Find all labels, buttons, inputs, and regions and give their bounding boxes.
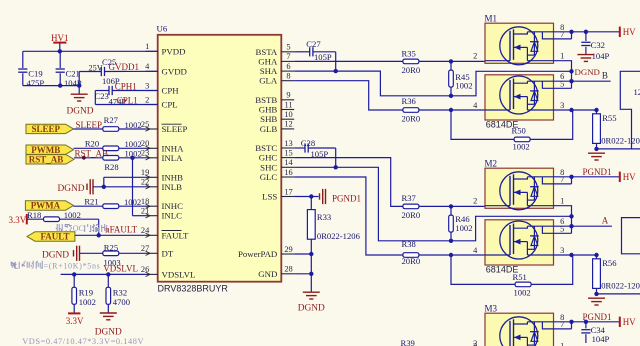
svg-text:16: 16	[284, 168, 292, 177]
pin 29 PowerPAD (U6 right)	[238, 245, 294, 259]
junction DGND tap	[77, 83, 81, 87]
svg-text:GHC: GHC	[259, 153, 278, 163]
junction nFAULT pullup	[97, 233, 101, 237]
svg-text:12: 12	[634, 87, 640, 97]
wire PowerPAD/GND column	[310, 254, 312, 292]
svg-text:22: 22	[141, 178, 149, 187]
pin 3 CPH (U6 left)	[145, 81, 179, 95]
svg-text:20R0: 20R0	[402, 65, 421, 75]
svg-text:3.3V: 3.3V	[66, 316, 84, 326]
svg-text:R32: R32	[113, 287, 127, 297]
wire CPL to pin 2	[95, 104, 157, 106]
svg-text:R20: R20	[85, 138, 99, 148]
power ground PGND1 (below R56)	[583, 298, 612, 322]
pin 8 GLA (U6 right)	[259, 72, 294, 86]
svg-text:FAULT: FAULT	[162, 230, 190, 240]
svg-text:6: 6	[286, 62, 290, 71]
junction R51 top	[449, 253, 453, 257]
pin 28 GND (U6 right)	[258, 265, 294, 279]
svg-text:10: 10	[284, 110, 292, 119]
junction R19 tap	[72, 272, 76, 276]
ground DGND (DT bar symbol)	[42, 246, 80, 261]
capacitor C25 106P 25V on GVDD	[79, 57, 158, 86]
transistor M2 (dual MOSFET 6814DE half-bridge)	[473, 159, 571, 275]
pin 13 BSTC (U6 right)	[255, 139, 294, 153]
svg-text:R35: R35	[402, 48, 416, 58]
svg-text:OC: OC	[73, 224, 84, 233]
junction M2 drain node	[569, 175, 573, 179]
svg-text:VDS=0.47/10.47*3.3V=0.148V: VDS=0.47/10.47*3.3V=0.148V	[22, 337, 144, 346]
resistor R21 1002	[74, 196, 146, 208]
junction LSS	[309, 194, 313, 198]
svg-text:nFAULT: nFAULT	[105, 224, 138, 234]
resistor R28 1002	[74, 149, 146, 172]
svg-text:GHA: GHA	[258, 56, 278, 66]
pin 27 DT (U6 left)	[141, 244, 174, 258]
svg-text:1002: 1002	[455, 81, 472, 91]
svg-text:R25: R25	[104, 242, 118, 252]
svg-text:18: 18	[141, 197, 149, 206]
svg-text:GLC: GLC	[260, 172, 278, 182]
svg-text:0R022-120: 0R022-120	[601, 136, 640, 146]
svg-text:HV: HV	[623, 27, 636, 37]
svg-text:5: 5	[560, 79, 564, 88]
pin 21 INLC (U6 left)	[141, 207, 182, 221]
svg-text:R33: R33	[317, 212, 331, 222]
port SLEEP	[26, 124, 74, 134]
wire SHA run	[294, 71, 571, 96]
svg-text:=(R+10K)*5ns: =(R+10K)*5ns	[44, 261, 101, 270]
resistor R35 20R0	[402, 48, 486, 74]
svg-text:2: 2	[145, 95, 149, 104]
svg-text:HV1: HV1	[51, 33, 69, 43]
junction HV bus / HV1	[58, 49, 62, 53]
svg-text:DGND: DGND	[42, 250, 69, 260]
svg-text:7: 7	[560, 30, 564, 39]
pin 16 GLC (U6 right)	[260, 168, 295, 182]
svg-text:HV: HV	[623, 172, 636, 182]
junction R55 tap	[594, 108, 598, 112]
svg-text:3: 3	[560, 101, 564, 110]
junction INHB/INLB tie	[102, 185, 106, 189]
svg-text:R18: R18	[27, 210, 41, 220]
wire GND pin to column	[294, 273, 311, 275]
svg-text:SHC: SHC	[260, 162, 277, 172]
svg-text:23: 23	[141, 149, 149, 158]
pin 5 BSTA (U6 right)	[256, 43, 295, 57]
pin 24 FAULT (U6 left)	[141, 226, 189, 240]
transistor M1 (dual MOSFET 6814DE half-bridge)	[473, 14, 571, 130]
pin 10 SHB (U6 right)	[260, 110, 294, 124]
svg-text:INHA: INHA	[162, 143, 185, 153]
svg-text:7: 7	[560, 175, 564, 184]
svg-text:7: 7	[560, 320, 564, 329]
svg-text:DRV8328BRUYR: DRV8328BRUYR	[158, 284, 229, 294]
svg-text:RST_AB: RST_AB	[29, 155, 64, 165]
wire PGND rail (exits right)	[597, 148, 640, 150]
resistor R18 1002	[27, 210, 99, 222]
svg-text:1: 1	[560, 52, 564, 61]
svg-text:DGND: DGND	[298, 304, 325, 314]
svg-text:DGND: DGND	[58, 184, 85, 194]
svg-text:INLA: INLA	[162, 153, 184, 163]
svg-text:SLEEP: SLEEP	[162, 124, 188, 134]
svg-text:SHA: SHA	[260, 66, 278, 76]
capacitor C19 475P	[18, 51, 44, 88]
capacitor C23 474P between CPH and CPL	[95, 86, 158, 106]
svg-text:PGND1: PGND1	[583, 167, 612, 177]
svg-text:24: 24	[141, 226, 150, 235]
wire GLC run	[294, 177, 403, 255]
capacitor C28 105P (BSTC bootstrap)	[294, 138, 336, 167]
svg-text:DT: DT	[162, 248, 174, 258]
svg-text:2: 2	[473, 339, 477, 346]
svg-text:M2: M2	[485, 159, 498, 169]
svg-text:CPH: CPH	[162, 86, 180, 96]
wire GHA to R35	[294, 60, 403, 62]
svg-text:25: 25	[141, 120, 149, 129]
resistor R25 1003 on DT	[80, 242, 146, 267]
svg-text:3: 3	[145, 81, 149, 90]
svg-text:20R0: 20R0	[402, 210, 421, 220]
transistor M3 (dual MOSFET 6814DE half-bridge)	[473, 304, 571, 346]
svg-text:INHB: INHB	[162, 172, 184, 182]
power port HV (M1)	[620, 27, 636, 37]
svg-text:R27: R27	[104, 115, 119, 125]
resistor R55 0R022-1206 (shunt)	[593, 110, 640, 149]
svg-text:CPL1: CPL1	[117, 96, 138, 106]
svg-text:B: B	[602, 71, 608, 81]
svg-text:4700: 4700	[113, 297, 130, 307]
resistor R50 1002 (gate-source low)	[451, 110, 573, 151]
resistor R38 20R0	[402, 239, 486, 266]
pin 26 VDSLVL (U6 left)	[141, 265, 195, 279]
wire VDSLVL	[61, 273, 146, 275]
resistor R46 1002 (gate-source)	[449, 206, 473, 240]
svg-text:CPL: CPL	[162, 100, 178, 110]
svg-text:28: 28	[284, 265, 292, 274]
svg-text:CPH1: CPH1	[115, 82, 137, 92]
power ground PGND1 (LSS bar symbol)	[294, 189, 361, 204]
pin 18 INHC (U6 left)	[141, 197, 183, 211]
junction M3 drain node	[569, 320, 573, 324]
svg-text:C28: C28	[301, 138, 315, 148]
junction C28 to SHC	[334, 165, 338, 169]
wire crop jog lower (right edge)	[622, 218, 640, 254]
power port 3.3V (R18 pullup)	[9, 214, 27, 225]
net label A (phase A stub)	[572, 225, 612, 227]
svg-text:R37: R37	[402, 193, 417, 203]
junction PowerPAD	[309, 252, 313, 256]
ground DGND (U6 GND)	[298, 292, 325, 313]
power port HV (M3)	[620, 317, 636, 327]
svg-text:1002: 1002	[64, 210, 81, 220]
svg-text:2: 2	[473, 52, 477, 61]
svg-text:PowerPAD: PowerPAD	[238, 249, 277, 259]
junction M1 low drain	[569, 79, 573, 83]
svg-text:29: 29	[284, 245, 292, 254]
svg-text:M1: M1	[485, 14, 498, 24]
svg-text:BSTC: BSTC	[255, 143, 277, 153]
svg-text:GLB: GLB	[260, 124, 278, 134]
svg-text:R19: R19	[79, 287, 93, 297]
resistor R33 0R022-1206 (sense)	[307, 197, 360, 255]
svg-text:U6: U6	[157, 24, 168, 34]
svg-text:SHB: SHB	[260, 114, 277, 124]
svg-text:FAULT: FAULT	[40, 232, 69, 242]
svg-text:PGND1: PGND1	[332, 194, 361, 204]
pin 14 SHC (U6 right)	[260, 158, 294, 172]
svg-text:GVDD: GVDD	[162, 66, 187, 76]
resistor R36 20R0	[402, 96, 486, 123]
pin 17 LSS (U6 right)	[262, 187, 294, 201]
svg-text:5: 5	[286, 43, 290, 52]
svg-text:105P: 105P	[314, 52, 332, 62]
capacitor C27 105P (BSTA bootstrap)	[294, 39, 336, 71]
junction R56 bottom	[594, 292, 598, 296]
svg-text:12: 12	[284, 120, 292, 129]
ground DGND (input caps)	[66, 86, 93, 117]
pin 22 INLB (U6 left)	[141, 178, 182, 192]
svg-text:INHC: INHC	[162, 201, 184, 211]
svg-text:1002: 1002	[513, 141, 530, 151]
wire M3 drain to HV	[572, 321, 620, 323]
svg-text:BSTA: BSTA	[256, 47, 278, 57]
junction C27 to SHA	[334, 69, 338, 73]
junction R32 tap	[106, 272, 110, 276]
net label B (phase B stub)	[572, 80, 611, 82]
svg-text:104P: 104P	[592, 334, 610, 344]
svg-text:A: A	[602, 216, 609, 226]
junction M2 phase node	[569, 214, 573, 218]
wire PowerPAD to column	[294, 253, 311, 255]
svg-text:475P: 475P	[27, 78, 45, 88]
junction R55 bottom	[594, 147, 598, 151]
junction R50 top	[449, 108, 453, 112]
svg-text:20: 20	[141, 139, 149, 148]
svg-text:DGND: DGND	[575, 67, 600, 77]
svg-text:104P: 104P	[592, 51, 610, 61]
pin 25 SLEEP (U6 left)	[141, 120, 188, 134]
svg-text:VDSLVL: VDSLVL	[103, 264, 138, 274]
svg-text:1002: 1002	[514, 287, 531, 297]
svg-text:INLC: INLC	[162, 211, 183, 221]
svg-text:15: 15	[284, 148, 292, 157]
svg-text:INLB: INLB	[162, 182, 183, 192]
svg-text:C23: C23	[95, 91, 109, 101]
svg-text:26: 26	[141, 265, 149, 274]
wire M2 source to shunt	[573, 254, 597, 256]
svg-text:PVDD: PVDD	[162, 46, 186, 56]
svg-text:20R0: 20R0	[402, 113, 421, 123]
wire DGND bars to INLB	[93, 186, 146, 188]
port FAULT	[27, 232, 75, 242]
wire crop jog upper (right edge)	[620, 71, 640, 149]
pin 11 GHB (U6 right)	[259, 100, 294, 114]
svg-text:SLEEP: SLEEP	[76, 120, 103, 130]
pin 15 GHC (U6 right)	[259, 148, 294, 162]
svg-text:14: 14	[284, 158, 293, 167]
wire GLA run	[294, 81, 403, 110]
junction R46 top	[449, 204, 453, 208]
port PWMA	[25, 201, 73, 211]
ground DGND (below R32)	[95, 313, 122, 338]
resistor R45 1002 (gate-source)	[449, 61, 473, 95]
junction M2 source row	[569, 253, 573, 257]
svg-text:R56: R56	[602, 258, 617, 268]
svg-text:BSTB: BSTB	[255, 95, 277, 105]
svg-text:R28: R28	[104, 162, 118, 172]
svg-text:C27: C27	[306, 39, 321, 49]
ground DGND (INHB/INLB bar symbol)	[58, 179, 94, 194]
junction R45 bottom on SHA	[449, 94, 453, 98]
svg-text:9: 9	[286, 91, 290, 100]
svg-text:C32: C32	[591, 40, 605, 50]
svg-text:R21: R21	[84, 196, 98, 206]
resistor R32 4700	[106, 274, 130, 312]
ground DGND (C32)	[575, 55, 600, 77]
resistor R51 1002 (gate-source low)	[451, 255, 573, 297]
svg-text:GND: GND	[258, 269, 277, 279]
svg-text:1002: 1002	[79, 297, 96, 307]
svg-text:R39: R39	[401, 338, 415, 346]
wire GHC run	[294, 158, 403, 207]
IC U6 DRV8328BRUYR gate driver body	[157, 24, 282, 294]
wire SHC run	[294, 167, 571, 241]
svg-text:17: 17	[284, 187, 292, 196]
resistor R20 1002	[74, 138, 146, 150]
svg-text:11: 11	[284, 100, 292, 109]
pin 12 GLB (U6 right)	[260, 120, 295, 134]
power port HV (M2)	[620, 172, 636, 182]
junction M1 phase node	[569, 69, 573, 73]
wire INLA branch down to INLC	[132, 158, 134, 216]
power port 3.3V (below R19)	[66, 313, 84, 326]
svg-text:27: 27	[141, 244, 149, 253]
svg-text:DGND: DGND	[66, 107, 93, 117]
svg-text:4: 4	[145, 62, 150, 71]
junction RST_AB net label tap	[82, 156, 86, 160]
wire HV bus to PVDD pin 1	[23, 50, 158, 52]
pin 2 CPL (U6 left)	[145, 95, 178, 109]
capacitor C32 104P (HV bypass)	[581, 30, 609, 61]
pin 6 SHA (U6 right)	[260, 62, 295, 76]
junction GND pin	[309, 272, 313, 276]
junction M1 drain node	[569, 30, 573, 34]
power ground PGND1 (below R55)	[583, 153, 612, 177]
svg-text:VDSLVL: VDSLVL	[162, 269, 196, 279]
svg-text:6814DE: 6814DE	[486, 119, 519, 129]
svg-text:21: 21	[141, 207, 149, 216]
resistor R19 1002	[72, 274, 96, 313]
port PWMB	[26, 145, 74, 155]
pin 9 BSTB (U6 right)	[255, 91, 294, 105]
wire M1 drain to HV	[572, 31, 620, 33]
svg-text:1002: 1002	[125, 139, 142, 149]
pin 23 INLA (U6 left)	[141, 149, 183, 163]
pin 1 PVDD (U6 left)	[145, 42, 185, 56]
wire INHB to pin 19	[104, 176, 146, 178]
svg-text:6814DE: 6814DE	[486, 264, 519, 274]
svg-text:4: 4	[473, 101, 478, 110]
pin 20 INHA (U6 left)	[141, 139, 184, 153]
svg-text:1002: 1002	[455, 223, 472, 233]
wire R18 down to FAULT line	[98, 219, 100, 235]
svg-text:PWMB: PWMB	[31, 145, 60, 155]
svg-text:R36: R36	[402, 96, 417, 106]
svg-text:25V: 25V	[89, 63, 103, 72]
junction R56 tap	[594, 253, 598, 257]
svg-text:GHB: GHB	[259, 105, 278, 115]
wire M2 drain to HV	[572, 176, 620, 178]
svg-text:1002: 1002	[124, 197, 141, 207]
svg-text:R38: R38	[402, 239, 416, 249]
svg-text:DGND: DGND	[95, 328, 122, 338]
svg-text:19: 19	[141, 168, 149, 177]
annotation OC gate output (chinese)	[56, 224, 72, 232]
svg-text:1: 1	[145, 42, 149, 51]
capacitor C34 104P (HV bypass M3)	[581, 320, 609, 344]
svg-text:SLEEP: SLEEP	[31, 124, 60, 134]
capacitor C21 104P	[56, 51, 82, 88]
junction R46 bottom on SHC	[449, 239, 453, 243]
wire INHB tie vertical	[103, 177, 105, 187]
resistor R37 20R0	[402, 193, 486, 220]
svg-text:0R022-120: 0R022-120	[601, 281, 640, 291]
svg-text:1: 1	[560, 342, 564, 346]
svg-text:7: 7	[286, 52, 290, 61]
svg-text:13: 13	[284, 139, 292, 148]
svg-text:1: 1	[560, 197, 564, 206]
junction R45 top	[449, 59, 453, 63]
wire FAULT port to pin 24	[75, 234, 146, 236]
junction C21 bottom	[58, 83, 62, 87]
svg-text:4: 4	[473, 246, 478, 255]
svg-text:3: 3	[560, 246, 564, 255]
svg-text:GLA: GLA	[259, 76, 278, 86]
power port HV1	[51, 33, 69, 51]
svg-text:3.3V: 3.3V	[9, 215, 27, 225]
svg-text:1002: 1002	[125, 120, 142, 130]
svg-text:8: 8	[286, 72, 290, 81]
svg-text:5: 5	[560, 224, 564, 233]
svg-text:2: 2	[473, 197, 477, 206]
svg-text:0R022-1206: 0R022-1206	[317, 231, 361, 241]
pin 7 GHA (U6 right)	[258, 52, 294, 66]
port RST_AB	[26, 155, 74, 165]
wire INLC to pin 21	[133, 215, 146, 217]
svg-text:R55: R55	[602, 113, 616, 123]
junction M2 low drain	[569, 224, 573, 228]
svg-text:M3: M3	[485, 304, 498, 314]
svg-text:HV: HV	[623, 317, 636, 327]
svg-text:20R0: 20R0	[402, 256, 421, 266]
wire PGND rail A (exits right)	[597, 293, 640, 295]
annotation dead time formula (chinese+ascii)	[11, 261, 43, 269]
junction M1 source row	[569, 108, 573, 112]
wire C19/C21 bottoms to DGND	[23, 85, 79, 87]
wire M1 source to PGND rail	[573, 109, 597, 111]
svg-text:GVDD1: GVDD1	[109, 62, 140, 72]
resistor R27 1002	[74, 115, 146, 132]
junction INLA / INLC branch	[130, 156, 134, 160]
pin 4 GVDD (U6 left)	[145, 62, 187, 76]
resistor R56 0R022-1206 (shunt)	[593, 255, 640, 294]
pin 19 INHB (U6 left)	[141, 168, 183, 182]
svg-text:LSS: LSS	[262, 192, 277, 202]
